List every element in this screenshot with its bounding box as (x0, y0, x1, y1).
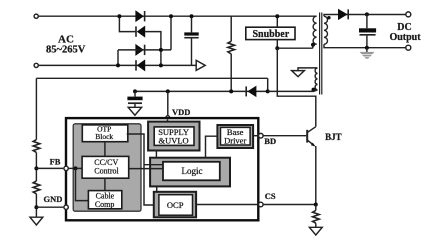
node top rail left junction (117, 14, 121, 18)
node output cap bottom junction (365, 46, 369, 50)
wire CCCV to Logic (129, 168, 163, 170)
DC output terminal bottom (406, 45, 411, 50)
diode D4 bridge bottom (136, 60, 145, 70)
ground aux arrow (292, 71, 305, 77)
node row3 crossing junction (159, 48, 163, 52)
pin BD (259, 133, 264, 138)
label GND (44, 194, 63, 204)
node row4 junction (159, 63, 163, 67)
resistor R1 startup upper lead (230, 16, 232, 41)
diode D2 bridge second (136, 26, 145, 36)
svg-text:FB: FB (50, 157, 61, 167)
label BJT (325, 132, 342, 142)
svg-text:85~265V: 85~265V (46, 45, 86, 56)
wire CCCV to Cable (104, 178, 106, 190)
svg-text:GND: GND (44, 194, 63, 204)
wire OCP to CS pin (196, 204, 258, 206)
block Logic (150, 158, 230, 187)
label CS (265, 191, 276, 201)
block OTP (82, 124, 128, 141)
capacitor C2 VDD (127, 91, 142, 107)
node VDD line startup junction (229, 89, 233, 93)
resistor R1 startup lower lead (230, 54, 232, 92)
capacitor C3 output (359, 14, 376, 47)
transformer auxiliary winding (315, 68, 317, 90)
node bottom input junction (116, 63, 120, 67)
wire OTP branch to Logic (144, 164, 163, 166)
wire drain down route (277, 48, 316, 126)
wire FB (36, 167, 63, 169)
AC input terminal top (34, 14, 38, 18)
node VDD line pin junction (166, 89, 170, 93)
wire SUPPLY to Logic (155, 150, 157, 158)
node VDD line cap junction (133, 89, 137, 93)
svg-text:OCP: OCP (167, 200, 184, 210)
svg-text:BD: BD (264, 136, 276, 146)
wire BD to base (263, 135, 306, 137)
transformer core (320, 13, 322, 95)
block CC/CV Control (82, 156, 129, 178)
node CS junction (314, 203, 318, 207)
wire secondary bottom lead (324, 44, 406, 47)
label AC 85~265V (46, 33, 86, 55)
wire VDD supply line (135, 90, 268, 92)
svg-text:BJT: BJT (325, 132, 342, 142)
pin CS (259, 202, 264, 207)
svg-text:&UVLO: &UVLO (158, 136, 188, 146)
gray analog block (73, 124, 141, 211)
wire bridge row2 to row4 drop (145, 32, 161, 66)
wire aux bottom lead (268, 90, 318, 92)
node drain junction (275, 46, 279, 50)
node top rail snubber junction (275, 14, 279, 18)
block Cable Comp (88, 191, 121, 209)
transistor Q1 BJT (307, 127, 316, 147)
node aux phase dot (312, 88, 316, 92)
node secondary phase dot (327, 16, 330, 19)
ground divider arrow (30, 217, 43, 225)
svg-text:Comp: Comp (95, 200, 115, 209)
wire Base Driver to BD pin (253, 135, 259, 137)
snubber box (246, 27, 295, 40)
label DC Output (389, 22, 421, 43)
DC output terminal top (406, 12, 411, 17)
block OCP (154, 192, 196, 218)
block Base Driver (217, 125, 253, 148)
net arrow primary return (196, 60, 205, 70)
resistor R3 divider lower (33, 168, 40, 217)
svg-text:VDD: VDD (172, 107, 190, 117)
ground VDD cap (128, 107, 141, 115)
svg-text:AC: AC (58, 33, 74, 45)
label FB (50, 157, 61, 167)
node primary phase dot (311, 43, 315, 47)
wire drain to primary bottom (277, 47, 313, 49)
svg-text:CS: CS (265, 191, 276, 201)
svg-text:Snubber: Snubber (252, 29, 289, 40)
wire OTP to OCP (127, 134, 154, 205)
label VDD (172, 107, 190, 117)
transformer secondary winding (324, 16, 328, 44)
wire Logic to Base Driver (206, 136, 218, 158)
pin VDD (166, 116, 170, 120)
svg-text:Output: Output (389, 32, 421, 43)
resistor R1 startup zigzag (228, 41, 235, 54)
node output cap top junction (365, 12, 369, 16)
pin FB (64, 166, 68, 170)
svg-text:Driver: Driver (224, 136, 246, 146)
wire OTP to CCCV (104, 142, 106, 157)
pin GND (64, 205, 68, 209)
wire top AC rail (38, 15, 316, 17)
svg-text:Logic: Logic (182, 166, 203, 176)
wire GND (36, 206, 63, 208)
block SUPPLY UVLO (148, 122, 199, 151)
AC input terminal bottom (34, 63, 38, 67)
resistor R2 divider upper (33, 78, 40, 168)
ground sense arrow (309, 227, 322, 235)
wire CS external (263, 204, 316, 206)
svg-text:Control: Control (94, 167, 119, 176)
diode D6 VDD feed (246, 86, 256, 96)
wire primary return rail (36, 77, 267, 79)
wire snubber to drain node (276, 40, 278, 49)
node top rail cap junction (190, 14, 194, 18)
wire bridge lower input riser (117, 50, 119, 66)
wire bottom AC line (38, 64, 196, 66)
node FB divider junction (34, 166, 38, 170)
diode D5 output rectifier (338, 9, 348, 19)
wire return rail drop to aux line (267, 78, 269, 91)
wire bridge left upper drop (119, 16, 136, 31)
IC controller outline U1 (66, 118, 258, 220)
wire bridge row3 (118, 49, 171, 51)
wire secondary top lead (324, 15, 406, 17)
label BD (264, 136, 276, 146)
node VDD line aux junction (266, 89, 270, 93)
wire aux top lead (298, 68, 317, 71)
diode D1 bridge top (136, 11, 145, 21)
node FB internal junction (74, 166, 78, 170)
node top rail row3 junction (169, 14, 173, 18)
capacitor C1 bulk input (184, 16, 198, 65)
resistor R4 current sense (313, 205, 320, 228)
diode D3 bridge third (136, 45, 145, 55)
transformer primary winding (313, 16, 317, 48)
wire FB internal (67, 167, 82, 169)
wire VDD pin drop (167, 91, 169, 115)
node GND divider junction (34, 205, 38, 209)
wire FB to Cable Comp (76, 168, 89, 200)
wire Logic to OCP (156, 186, 158, 191)
wire VDD internal (167, 120, 169, 122)
snubber tap from top rail (276, 16, 278, 28)
svg-text:Block: Block (95, 132, 113, 141)
ground secondary earth (360, 48, 375, 59)
wire emitter down (315, 146, 317, 205)
wire bridge row3 riser to top rail (170, 16, 172, 50)
